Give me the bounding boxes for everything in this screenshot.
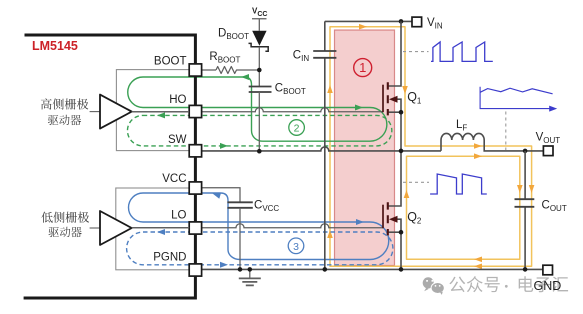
pin HO (189, 105, 201, 117)
ground symbol (249, 269, 251, 277)
capacitor CBOOT (249, 87, 272, 93)
label: low-side gate driver (Chinese) (41, 212, 52, 223)
svg-text:3: 3 (293, 241, 299, 253)
node: Q2 source rail (399, 267, 404, 272)
PGND / GND return rail (202, 268, 543, 270)
op-amp buffer: high-side driver (100, 95, 132, 129)
low-side driver block outline (116, 188, 196, 270)
blue LO turn-off gate loop (dashed) (127, 232, 393, 265)
wire SW rail to LF (hop over CIN wire) (202, 147, 442, 151)
label link low-side (90, 227, 100, 229)
waveform: inductor ripple current (480, 88, 552, 94)
terminal VIN (412, 17, 422, 27)
terminal GND (543, 265, 553, 275)
resistor RBOOT (216, 67, 259, 74)
diode DBOOT (schottky) (252, 31, 266, 46)
Q2 source stub (388, 231, 401, 233)
transistor Q1 (382, 85, 384, 113)
label link high-side (90, 111, 100, 113)
watermark text (449, 277, 465, 293)
node: VIN rail to Q1 drain (399, 19, 404, 24)
inductor LF (441, 133, 543, 151)
pin PGND (189, 264, 201, 276)
input capacitor CIN branch (324, 21, 326, 269)
node: CVCC to PGND (238, 267, 243, 272)
VCC supply bar (252, 19, 267, 31)
green arrows (241, 74, 249, 80)
svg-text:GND: GND (534, 279, 562, 293)
op-amp buffer: low-side driver (100, 211, 132, 245)
waveform axes: inductor current (480, 87, 550, 109)
loop number 2 (289, 120, 305, 136)
svg-text:PGND: PGND (153, 252, 186, 264)
dashed link: LF wire to inductor current waveform (505, 112, 507, 151)
loop number 1 (354, 59, 372, 77)
blue LO turn-on gate loop (solid) (129, 193, 389, 260)
wire HO to Q1 gate (hops over CBOOT and CIN wires) (132, 108, 383, 112)
node: Q2 source to PGND (399, 230, 404, 235)
dashed link: Q1 drain to its current waveform (403, 51, 429, 53)
wire LO to Q2 gate (hops over CVCC and CIN wires) (132, 224, 383, 228)
node: CBOOT to SW (257, 149, 262, 154)
yellow arrows (359, 24, 367, 30)
pin LO (189, 222, 201, 234)
pin VCC (189, 182, 201, 194)
VIN top rail (325, 20, 412, 22)
wire BOOT to RBOOT to DBOOT junction (202, 69, 217, 71)
watermark wechat icon (423, 277, 445, 295)
svg-text:LM5145: LM5145 (32, 39, 78, 53)
output capacitor COUT branch (524, 151, 526, 270)
LM5145 IC boundary (thick) (24, 35, 196, 298)
node: SW junction (399, 149, 404, 154)
node: VOUT junction (523, 149, 528, 154)
green HO turn-off gate loop (dashed) (127, 115, 391, 145)
svg-text:HO: HO (169, 94, 186, 106)
svg-text:VCC: VCC (162, 173, 186, 185)
high-side driver block outline (116, 70, 195, 151)
loop number 3 (288, 238, 304, 254)
waveform: Q1 current (431, 42, 493, 61)
yellow input-current loop P1 (VIN-Q1-LF-COUT-GND-CIN) (330, 27, 532, 267)
half-bridge vertical: Q1 drain (388, 21, 401, 86)
node: Q1 source to SW (399, 110, 404, 115)
waveform: Q2 current (430, 174, 487, 194)
half-bridge vertical: Q1 body/source to Q2 drain (388, 99, 401, 206)
svg-text:1: 1 (359, 60, 366, 75)
hot-loop shaded region (input cap loop) (335, 30, 395, 266)
yellow freewheel loop P2 (Q2-LF-COUT-GND) (407, 156, 520, 259)
pin BOOT (189, 64, 201, 76)
node: ground stub (248, 267, 253, 272)
Q1 source stub (388, 111, 401, 113)
wire VCC pin to CVCC (202, 188, 241, 202)
svg-text:LO: LO (171, 210, 186, 222)
node: RBOOT/DBOOT/CBOOT junction (257, 68, 262, 73)
svg-text:2: 2 (294, 123, 300, 135)
node: COUT to GND rail (523, 267, 528, 272)
dashed link: Q2 drain to its current waveform (403, 181, 429, 183)
label: high-side gate driver (Chinese) (41, 98, 52, 109)
svg-text:BOOT: BOOT (154, 56, 187, 68)
node: CIN to PGND (323, 267, 328, 272)
green HO turn-on gate loop (solid) (128, 77, 387, 141)
Q2 body line (397, 219, 401, 269)
blue arrows (212, 191, 221, 199)
pin SW (189, 145, 201, 157)
terminal VOUT (543, 146, 553, 156)
transistor Q2 (382, 205, 384, 229)
capacitor CVCC (227, 202, 252, 208)
svg-text:SW: SW (168, 134, 187, 146)
